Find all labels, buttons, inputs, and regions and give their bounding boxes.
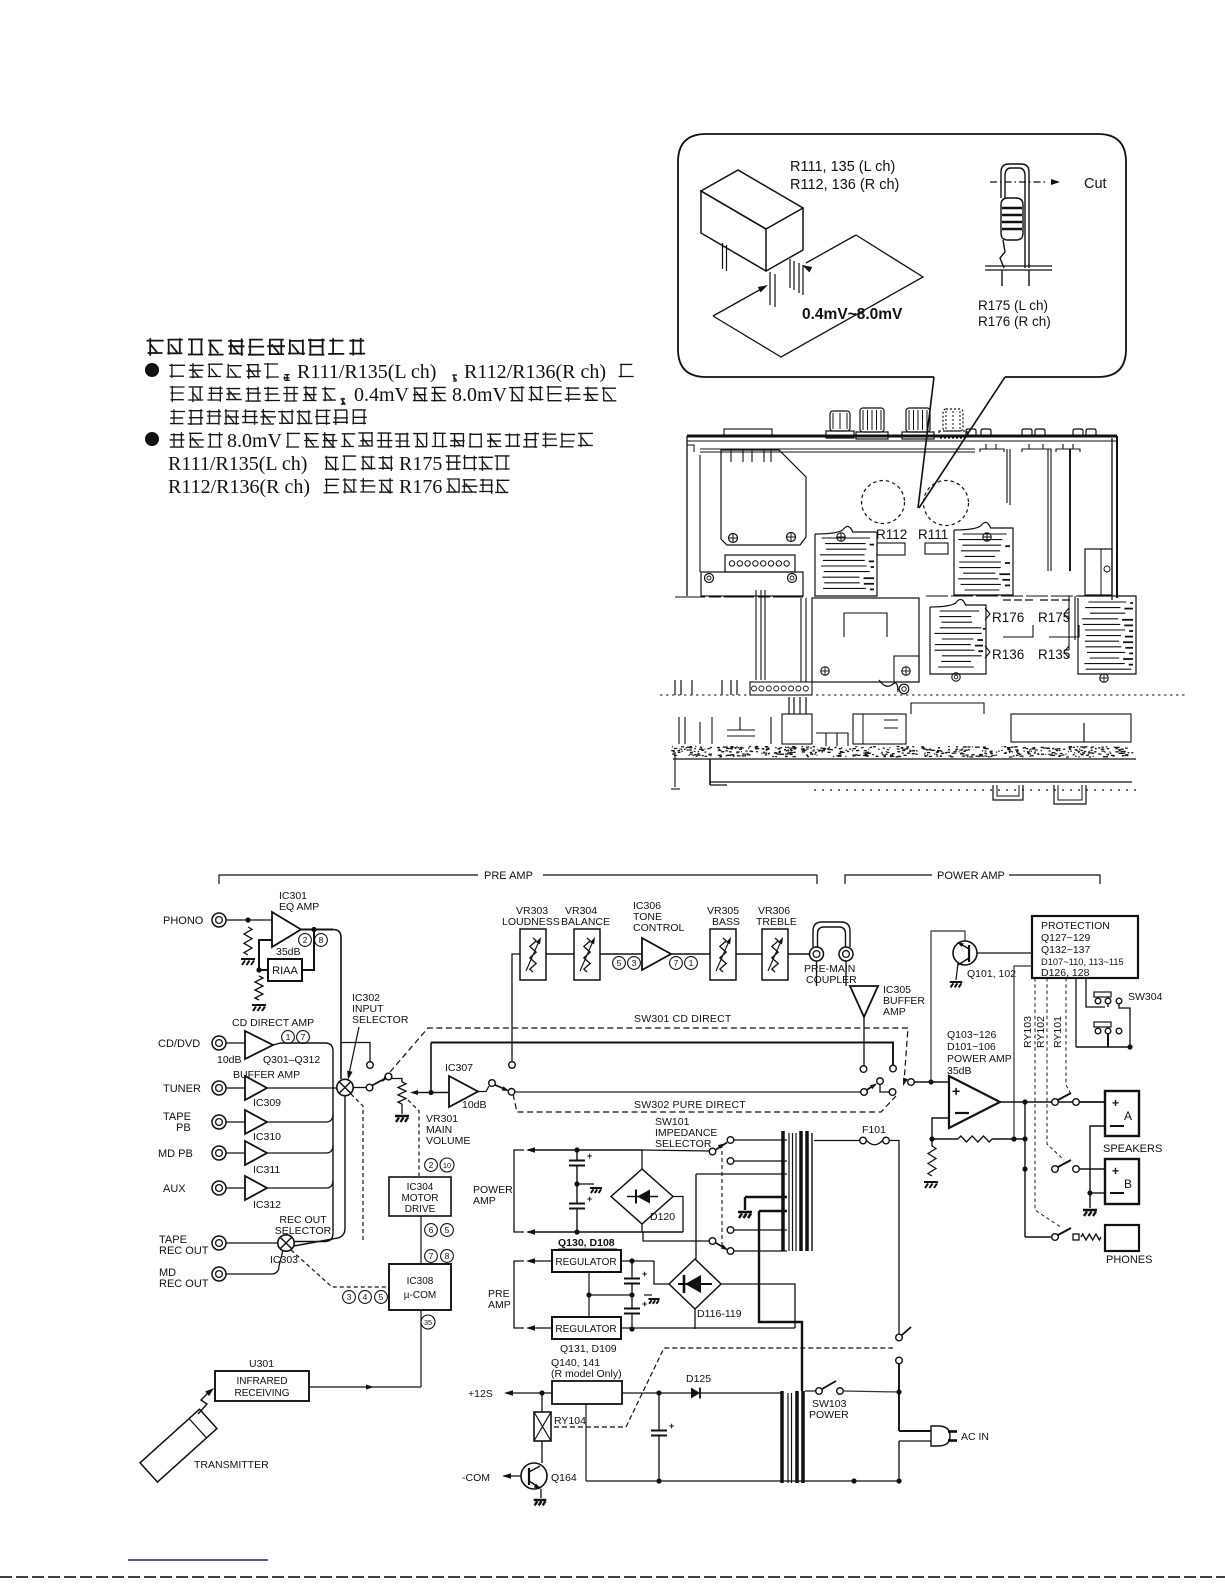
relay RY104	[534, 1412, 551, 1441]
dashed VR301 to motor	[408, 1100, 419, 1176]
wire q164 ground	[540, 1489, 542, 1498]
svg-text:R176 (R ch): R176 (R ch)	[978, 314, 1051, 329]
note line 1	[169, 363, 279, 379]
bridge D116-119	[669, 1259, 721, 1309]
ground RIAA	[252, 1005, 266, 1011]
wire q101 collector	[977, 952, 1032, 954]
pin 8 ucom	[441, 1250, 454, 1263]
resistor feedback	[958, 1136, 992, 1142]
jack TUNER	[212, 1081, 226, 1095]
jack CD/DVD	[212, 1036, 226, 1050]
pin 6 ucom	[425, 1224, 438, 1237]
pcb heatsink row2 right	[1078, 596, 1136, 674]
note bullet 2	[145, 432, 159, 446]
bracket POWER AMP	[845, 875, 1100, 884]
svg-text:SELECTOR: SELECTOR	[655, 1138, 712, 1150]
contact sw301 arm	[385, 1073, 392, 1080]
package pin back-right	[789, 259, 791, 288]
svg-text:IC312: IC312	[253, 1199, 281, 1211]
svg-text:+: +	[1112, 1096, 1119, 1110]
svg-text:+: +	[669, 1421, 674, 1431]
pcb heatsink row1 left	[815, 526, 877, 596]
wire bottom rail	[586, 1480, 899, 1482]
svg-text:Cut: Cut	[1084, 176, 1107, 192]
pcb bottom area parts	[788, 697, 790, 714]
wire to speaker B	[1080, 1168, 1106, 1170]
svg-text:Q103~126: Q103~126	[947, 1029, 996, 1041]
svg-text:RY103: RY103	[1022, 1016, 1034, 1048]
note bullet 1	[145, 363, 159, 377]
svg-text:R175: R175	[399, 453, 442, 475]
arrow to input selector	[349, 1027, 359, 1074]
svg-text:R176: R176	[399, 476, 442, 498]
wire fuse line	[814, 1140, 859, 1142]
block PROTECTION	[1032, 916, 1138, 978]
resistor body R175	[1001, 198, 1023, 240]
diode D116	[678, 1283, 712, 1285]
wire vr303-vr304	[546, 953, 574, 955]
svg-text:5: 5	[445, 1225, 450, 1235]
svg-text:+: +	[642, 1299, 647, 1309]
wire tape rec	[226, 1242, 278, 1244]
pcb tiny hatches	[1003, 599, 1070, 601]
pot VR304	[574, 929, 600, 980]
pcb row2 verticals left	[755, 590, 757, 680]
pot VR301	[398, 1082, 406, 1104]
wire sw304 drop1	[1075, 978, 1077, 1047]
pcb bottom line 2	[710, 781, 1132, 783]
speaker box B	[1105, 1159, 1139, 1204]
svg-text:RY104: RY104	[554, 1415, 586, 1427]
svg-text:SW304: SW304	[1128, 991, 1163, 1003]
svg-text:10dB: 10dB	[217, 1054, 242, 1066]
svg-text:10: 10	[443, 1161, 451, 1170]
pcb bottom line 1	[673, 758, 1136, 760]
jack PHONO	[212, 913, 226, 927]
svg-text:REC OUT: REC OUT	[159, 1245, 209, 1257]
pre-main coupler jumper	[813, 922, 850, 947]
svg-text:R111, 135 (L ch): R111, 135 (L ch)	[790, 159, 895, 175]
contact tone return	[509, 1062, 516, 1069]
block Q140 141	[552, 1381, 622, 1404]
pcb rear connector plate	[724, 429, 772, 435]
pcb screw a	[729, 534, 738, 543]
wire plug live	[899, 1430, 931, 1432]
footer dashed line	[0, 1576, 1225, 1578]
svg-text:PRE AMP: PRE AMP	[484, 870, 533, 882]
svg-text:CONTROL: CONTROL	[633, 922, 684, 934]
switch SW304 upper	[1094, 992, 1111, 997]
svg-text:TRANSMITTER: TRANSMITTER	[194, 1459, 269, 1471]
wire vr303 left down	[512, 954, 520, 1062]
svg-text:7: 7	[674, 958, 679, 968]
pcb screw g washer	[899, 684, 909, 694]
pin 7 IC306	[670, 957, 683, 970]
wire supply pos rail	[528, 1149, 642, 1151]
ground VR301	[401, 1104, 403, 1114]
wire to D116 bridge	[695, 1174, 697, 1259]
svg-text:R112/R136(R ch): R112/R136(R ch)	[168, 476, 310, 498]
jack TAPE REC OUT	[212, 1236, 226, 1250]
svg-text:BALANCE: BALANCE	[561, 916, 610, 928]
arm poweramp switch	[867, 1085, 876, 1091]
pcb divider line v3	[1069, 449, 1071, 571]
svg-text:TREBLE: TREBLE	[756, 916, 797, 928]
svg-text:+: +	[1112, 1164, 1119, 1178]
wire +12S	[504, 1390, 513, 1396]
svg-text:IC303: IC303	[270, 1254, 298, 1266]
pcb connector strip 2	[750, 682, 812, 695]
svg-text:REGULATOR: REGULATOR	[555, 1257, 616, 1268]
cut line	[990, 181, 1048, 183]
op-amp IC306	[642, 938, 671, 970]
pcb screw b	[787, 533, 796, 542]
contact poweramp sw2	[890, 1065, 897, 1072]
resistor lead bottom	[1000, 240, 1005, 268]
svg-text:Q131, D109: Q131, D109	[560, 1343, 617, 1355]
svg-text:R112: R112	[876, 527, 907, 542]
wire c6 to amp	[915, 1081, 950, 1083]
package pin front-right	[798, 263, 800, 293]
transformer T1	[781, 1131, 785, 1251]
svg-text:-COM: -COM	[462, 1472, 490, 1484]
ground Q164	[534, 1500, 547, 1505]
note title (Japanese)	[147, 338, 366, 356]
switch SW101 upper	[709, 1148, 716, 1155]
wire main line to poweramp switch	[515, 1091, 861, 1093]
wire d125 to T2	[700, 1392, 781, 1394]
wire md rec	[226, 1250, 283, 1274]
svg-text:Q130, D108: Q130, D108	[558, 1237, 615, 1249]
bracket PRE AMP	[219, 875, 817, 884]
wire tuner output	[267, 1087, 337, 1089]
switch speaker A	[1052, 1099, 1059, 1106]
capacitor q140	[658, 1393, 660, 1431]
dashed sw101 link	[721, 1144, 723, 1248]
switch phones	[1052, 1234, 1059, 1241]
speaker box A	[1105, 1091, 1139, 1136]
wire aux input	[226, 1187, 245, 1189]
pin 5b ucom	[375, 1291, 388, 1304]
contact poweramp sw1	[860, 1066, 867, 1073]
block REGULATOR 2	[552, 1317, 621, 1339]
wire vr306 out	[788, 953, 810, 955]
svg-text:7: 7	[429, 1251, 434, 1261]
pcb left daughter board	[721, 450, 806, 545]
svg-text:R111/R135(L ch): R111/R135(L ch)	[297, 361, 436, 383]
wire mdpb input	[226, 1152, 245, 1154]
contact main c6	[908, 1079, 915, 1086]
bridge D120	[611, 1169, 673, 1224]
switch arm input	[372, 1079, 385, 1086]
svg-text:AC IN: AC IN	[961, 1431, 989, 1443]
wire supply neg rail	[528, 1231, 683, 1233]
ground Q101	[950, 982, 963, 987]
ground supply caps	[590, 1188, 602, 1193]
wire transformer bold tap	[759, 1210, 787, 1212]
pcb resistor R175 corner mark	[1049, 625, 1079, 637]
wire plug neutral	[899, 1440, 931, 1442]
pcb chassis rear edge	[687, 435, 1117, 438]
svg-text:SPEAKERS: SPEAKERS	[1103, 1143, 1162, 1155]
wire speakers ground	[1089, 1193, 1091, 1208]
wire q140 out	[622, 1392, 691, 1394]
wire tapepb output	[267, 1114, 333, 1122]
wire speaker B minus	[1090, 1192, 1105, 1194]
jack coupler left	[810, 947, 824, 961]
block RIAA	[268, 959, 302, 981]
svg-text:AMP: AMP	[488, 1299, 511, 1311]
switch arm ic307	[495, 1085, 507, 1090]
pin 5 IC306	[613, 957, 626, 970]
measurement arrow left	[713, 288, 763, 316]
svg-text:D125: D125	[686, 1373, 711, 1385]
ground speakers	[1083, 1210, 1097, 1216]
capacitor supply pos	[569, 1160, 585, 1162]
resistor R175/R176 axial	[1001, 164, 1029, 268]
wire caps mid	[576, 1150, 578, 1161]
pcb resistor R112 outline	[877, 543, 905, 555]
pcb wavy wire	[879, 680, 898, 692]
wire ic307 out	[478, 1086, 489, 1092]
svg-text:8: 8	[319, 935, 324, 945]
pcb comb bracket c	[1056, 444, 1080, 452]
dashed SW301 CD DIRECT	[390, 1028, 908, 1082]
diode D120	[627, 1196, 658, 1198]
wire neg to sw101 lower	[643, 1232, 709, 1241]
wire mains riser	[898, 1364, 900, 1431]
svg-text:RY101: RY101	[1052, 1016, 1064, 1048]
pin 8 IC301	[315, 934, 328, 947]
cd-direct bypass wire	[341, 1043, 370, 1063]
svg-text:0.4mV: 0.4mV	[354, 384, 410, 406]
contact poweramp arm	[877, 1078, 884, 1085]
svg-text:RIAA: RIAA	[272, 965, 298, 977]
wire D116 right box	[721, 1284, 795, 1328]
svg-text:PHONES: PHONES	[1106, 1254, 1152, 1266]
contact sw302 b	[508, 1089, 515, 1096]
wire D120 right	[673, 1197, 683, 1233]
wire ic306 out	[671, 953, 710, 955]
pin 3 IC306	[628, 957, 641, 970]
pot VR303	[520, 929, 546, 980]
svg-text:IC304: IC304	[407, 1182, 434, 1193]
wire cd output to bus	[273, 1043, 333, 1242]
wire EQ feedback left	[259, 940, 272, 970]
footer blue line	[128, 1559, 268, 1561]
resistor RIAA ground	[255, 976, 263, 1000]
svg-text:IC307: IC307	[445, 1062, 473, 1074]
svg-text:+: +	[642, 1269, 647, 1279]
pot VR305	[710, 929, 736, 980]
svg-text:Q132~137: Q132~137	[1041, 944, 1090, 956]
svg-text:AMP: AMP	[883, 1006, 906, 1018]
callout bubble frame	[678, 134, 1126, 377]
svg-text:U301: U301	[249, 1358, 274, 1370]
svg-text:Q164: Q164	[551, 1472, 577, 1484]
dashed selector to uCOM	[351, 1094, 363, 1243]
pin 7 CD amp	[297, 1031, 310, 1044]
wire reg1 out	[621, 1260, 654, 1262]
capacitor reg pos	[624, 1278, 640, 1280]
pcb row boundary	[675, 596, 807, 598]
pcb surface under resistor	[985, 265, 1052, 267]
pcb heatsink row1 right	[954, 522, 1013, 595]
wire phones bus	[1025, 1236, 1051, 1238]
block IC308 uCOM	[389, 1264, 451, 1310]
svg-text:+: +	[587, 1151, 592, 1161]
pcb divider line v2	[1047, 449, 1049, 571]
op-amp IC307	[449, 1076, 478, 1107]
pcb knob 3	[906, 408, 930, 432]
ac plug	[931, 1426, 950, 1446]
svg-text:RECEIVING: RECEIVING	[234, 1388, 289, 1399]
pcb screw e	[821, 667, 829, 675]
switch SW304 lower	[1094, 1022, 1111, 1027]
pcb foot a	[993, 785, 1023, 800]
pcb center block	[812, 598, 919, 682]
svg-text:INFRARED: INFRARED	[236, 1376, 287, 1387]
wire cap ground tap	[577, 1183, 594, 1185]
wire fuse to sw103 pole2	[890, 1141, 900, 1335]
measurement arrow right	[806, 235, 856, 263]
pin 2 motor	[425, 1159, 438, 1172]
svg-text:Q301–Q312: Q301–Q312	[263, 1054, 320, 1066]
capacitor reg neg	[624, 1308, 640, 1310]
wire bus from EQ	[333, 930, 341, 1080]
wire D120 top	[641, 1150, 643, 1169]
svg-text:2: 2	[303, 935, 308, 945]
svg-text:AUX: AUX	[163, 1183, 186, 1195]
svg-text:Q101, 102: Q101, 102	[967, 968, 1016, 980]
switch speaker B	[1052, 1166, 1059, 1173]
relay dashed RY103	[1035, 978, 1062, 1228]
svg-text:POWER AMP: POWER AMP	[947, 1053, 1012, 1065]
wire bold down	[759, 1211, 802, 1391]
op-amp power amp	[949, 1076, 1000, 1128]
dashed RY104 control	[554, 1348, 893, 1427]
wire to speaker A	[1080, 1101, 1106, 1103]
transformer T2	[780, 1391, 784, 1483]
wire buffer down	[863, 1017, 865, 1066]
svg-text:0.4mV~8.0mV: 0.4mV~8.0mV	[802, 306, 903, 323]
contact main c5	[861, 1089, 868, 1096]
svg-text:TUNER: TUNER	[163, 1083, 201, 1095]
wire aux output	[267, 1180, 333, 1188]
pcb foot b	[1054, 785, 1086, 804]
wire -COM	[502, 1473, 511, 1479]
wire y1042 bus	[431, 1043, 893, 1066]
svg-text:REGULATOR: REGULATOR	[555, 1324, 616, 1335]
svg-text:B: B	[1124, 1177, 1132, 1191]
callout bubble tail	[918, 377, 934, 508]
svg-text:DRIVE: DRIVE	[405, 1204, 436, 1215]
svg-text:R112/R136(R ch): R112/R136(R ch)	[464, 361, 606, 383]
svg-text:POWER AMP: POWER AMP	[937, 870, 1005, 882]
pot VR306	[762, 929, 788, 980]
pin 35 ucom	[421, 1315, 435, 1329]
selector IC302	[337, 1079, 353, 1095]
pin 1 CD amp	[282, 1031, 295, 1044]
contact cd-direct	[367, 1062, 374, 1069]
svg-text:SW302 PURE DIRECT: SW302 PURE DIRECT	[634, 1099, 746, 1111]
wire vr305 out	[736, 953, 762, 955]
wire D116 bottom	[694, 1309, 696, 1329]
svg-text:µ-COM: µ-COM	[404, 1290, 436, 1301]
svg-text:MD PB: MD PB	[158, 1148, 193, 1160]
pcb connector strip 1	[725, 555, 795, 572]
wire bus below selector	[294, 1096, 345, 1246]
svg-text:R175 (L ch): R175 (L ch)	[978, 298, 1048, 313]
wire pure-direct riser	[430, 1043, 432, 1093]
pcb right rect component	[1085, 549, 1112, 595]
svg-text:COUPLER: COUPLER	[806, 974, 857, 986]
wire arm L	[880, 1085, 889, 1093]
capacitor supply neg	[569, 1203, 585, 1205]
wire D116 left	[654, 1261, 669, 1284]
wire selector to contact	[354, 1087, 367, 1089]
svg-text:BASS: BASS	[712, 916, 740, 928]
wire q101 riser	[931, 931, 965, 1082]
wire reg cap ground	[644, 1294, 652, 1296]
svg-text:1: 1	[689, 958, 694, 968]
transmitter remote	[140, 1409, 217, 1482]
svg-text:Q127~129: Q127~129	[1041, 932, 1090, 944]
wire amp output	[1000, 1101, 1105, 1103]
wire ucom to infrared	[420, 1310, 422, 1387]
svg-text:IC308: IC308	[407, 1276, 434, 1287]
wire phono input	[226, 919, 272, 921]
svg-text:IC310: IC310	[253, 1131, 281, 1143]
measurement plane	[713, 235, 923, 357]
pin 7 ucom	[425, 1250, 438, 1263]
svg-text:PROTECTION: PROTECTION	[1041, 920, 1110, 932]
wire tapepb input	[226, 1121, 245, 1123]
svg-text:1: 1	[286, 1032, 291, 1042]
wire sw101 taps lower	[734, 1229, 787, 1231]
svg-text:D101~106: D101~106	[947, 1041, 996, 1053]
pcb speckle band	[671, 747, 1133, 758]
block REGULATOR 1	[552, 1250, 621, 1272]
wire wiper junction	[430, 1092, 448, 1094]
wire protection sense	[1014, 966, 1032, 1139]
block IC304 MOTOR DRIVE	[389, 1177, 451, 1216]
op-amp IC310	[245, 1110, 267, 1134]
wire sw304 drop2	[1086, 978, 1105, 1007]
svg-text:+12S: +12S	[468, 1388, 493, 1400]
dashed recout to ucom	[291, 1250, 389, 1287]
pcb resistor R111 outline	[925, 543, 948, 554]
pcb screw f	[902, 667, 910, 675]
bracket preamp supply	[514, 1261, 524, 1328]
pin 2 IC301	[299, 934, 312, 947]
svg-text:5: 5	[617, 958, 622, 968]
note line 4	[170, 432, 223, 448]
op-amp IC305 buffer	[850, 986, 878, 1017]
svg-text:MOTOR: MOTOR	[401, 1193, 438, 1204]
pcb screw heatsink1	[837, 533, 845, 541]
pcb capacitor C_L dashed circle	[862, 481, 905, 524]
svg-text:35dB: 35dB	[947, 1065, 972, 1077]
wire ry104 top	[541, 1393, 543, 1412]
pcb screw heatsink3	[952, 673, 960, 681]
svg-text:EQ AMP: EQ AMP	[279, 901, 319, 913]
jack coupler right	[839, 947, 853, 961]
wire q101 ground stub	[956, 963, 958, 980]
svg-text:+: +	[952, 1083, 960, 1099]
resistor amp ground leg	[928, 1146, 936, 1176]
svg-text:35dB: 35dB	[276, 946, 301, 958]
